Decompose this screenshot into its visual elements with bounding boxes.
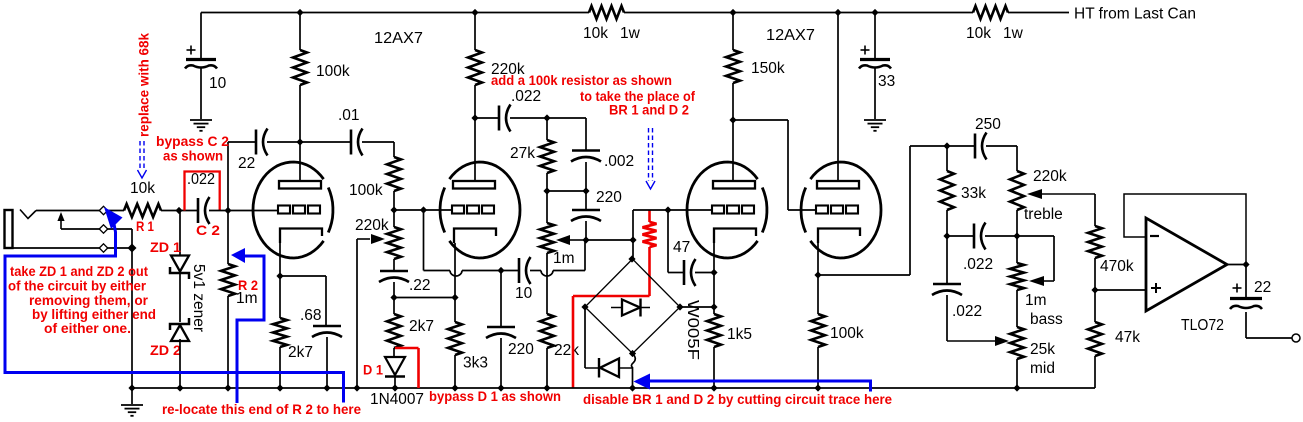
wire output to 22 cap [1245, 265, 1247, 298]
capacitor 47 [683, 260, 686, 285]
node cathode-side [451, 294, 458, 301]
wire 150k to plate [732, 83, 734, 181]
wire drop to 220 cap [500, 271, 502, 327]
svg-text:100k: 100k [349, 182, 383, 199]
red box around C2 [185, 172, 220, 211]
blue arrow at R2 top [231, 248, 245, 263]
svg-text:.022: .022 [963, 256, 993, 273]
wire node to bass wiper feed [1017, 235, 1054, 237]
svg-text:1N4007: 1N4007 [370, 391, 424, 408]
node bridge top [628, 255, 635, 262]
blue wire jack-node path [5, 224, 344, 403]
wire jack ring line [61, 228, 100, 230]
wire rail to V2b plate [837, 13, 839, 182]
resistor 33k [946, 146, 948, 171]
potentiometer 220k treble [1010, 171, 1024, 210]
node V1a cathode junction [276, 272, 283, 279]
svg-text:25k: 25k [1030, 341, 1055, 358]
resistor R2 1m [221, 264, 235, 296]
wire node to 1m pot [546, 191, 548, 223]
mid wiper arrow [995, 336, 1009, 346]
svg-text:250: 250 [975, 116, 1001, 133]
wire 470k to node [1094, 258, 1096, 290]
wire .022 to mid wiper [946, 295, 948, 341]
svg-text:HT from Last Can: HT from Last Can [1074, 6, 1196, 23]
node V2 grid [390, 206, 397, 213]
svg-text:22: 22 [1254, 279, 1271, 296]
wire ground bus [132, 387, 1095, 389]
node rail-33uF [871, 9, 878, 16]
ground (10uF) [190, 119, 212, 121]
svg-text:ZD 1: ZD 1 [150, 239, 181, 255]
triode V1a plate [279, 181, 321, 189]
wire tap to 47 cap [667, 210, 669, 273]
capacitor .002 [572, 149, 600, 152]
svg-text:100k: 100k [830, 325, 864, 342]
node .002 bottom [582, 187, 589, 194]
wire V2b grid line [788, 209, 816, 211]
wire V1a grid [228, 210, 278, 212]
wire R2 to bus [227, 296, 229, 388]
node rail-220k [471, 9, 478, 16]
node bridge right [676, 303, 683, 310]
node wiper-bus [353, 384, 360, 391]
wire rail to 100k [299, 13, 301, 51]
capacitor 10uF electrolytic [187, 49, 196, 51]
blue arrow at bridge lead [634, 374, 651, 390]
wire sleeve to ground bus [107, 247, 132, 249]
svg-text:.002: .002 [604, 153, 634, 170]
node coupling tap [729, 116, 736, 123]
svg-text:10k: 10k [130, 180, 155, 197]
svg-text:22: 22 [238, 155, 255, 172]
capacitor 10 [518, 258, 521, 283]
svg-text:10: 10 [209, 75, 227, 92]
wire .01 to 100k grid stopper [362, 141, 394, 143]
node plate junction V1a [296, 138, 303, 145]
blue arrow at R1 node [104, 207, 123, 229]
wire 100k to bus [817, 347, 819, 388]
wire ZD1 to ZD2 [179, 273, 181, 322]
triode V1a envelope [253, 162, 324, 258]
svg-text:27k: 27k [510, 145, 535, 162]
svg-text:2k7: 2k7 [288, 344, 313, 361]
wire D1 to bus [394, 377, 396, 388]
wire V2b cathode down [817, 243, 819, 314]
wire node to op-amp + [1095, 289, 1146, 291]
wire to 250 cap [947, 145, 975, 147]
wire grid node to R2 [227, 211, 229, 265]
svg-text:3k3: 3k3 [463, 355, 488, 372]
wire 1m pot to 22k [546, 253, 548, 314]
resistor 150k [726, 50, 740, 83]
wire V1b cathode [454, 243, 456, 298]
blue wire disable-trace path [649, 381, 871, 392]
zener ZD2 [171, 325, 189, 341]
wire .22 to 2k7 [393, 282, 395, 314]
svg-text:1k5: 1k5 [727, 326, 752, 343]
wire 2k7 to bus [279, 347, 281, 388]
wire 1k5 to bus [713, 347, 715, 388]
node .22-2k7 junction [390, 294, 397, 301]
svg-text:5v1 zener: 5v1 zener [190, 264, 207, 332]
node wiper line junction [582, 236, 589, 243]
triode V2a cathode [714, 229, 756, 244]
node bridge left [581, 303, 588, 310]
wire cathode to .68 [280, 275, 326, 277]
svg-text:1w: 1w [1003, 25, 1024, 42]
capacitor .01 [350, 130, 353, 155]
node bus-ground [128, 384, 135, 391]
volume pot wiper [357, 238, 370, 240]
svg-text:1m: 1m [1025, 292, 1047, 309]
wire grid node up to 22pF [227, 142, 229, 211]
wire node to 220 cap [585, 191, 587, 209]
wire jack tip line [36, 210, 100, 212]
wire treble to .022 node [1016, 210, 1018, 236]
wire 22 cap to output terminal [1245, 312, 1247, 338]
wire rail to 150k [732, 13, 734, 51]
wire bass to 25k [1016, 290, 1018, 327]
wire bridge right to cathode line [680, 306, 714, 308]
wire 3k3 to bus [454, 355, 456, 388]
ground (33uF) [864, 119, 886, 121]
node 220-bus [497, 384, 504, 391]
triode V1a cathode [280, 229, 322, 244]
wire 220 to bus [500, 338, 502, 388]
wire tap to V2b grid [733, 119, 788, 121]
wire bridge bottom to bus [631, 354, 635, 389]
node bridge-bus [629, 384, 636, 391]
op-amp plus sign [1151, 287, 1161, 289]
blue dashed arrow to bridge [648, 128, 650, 181]
wire junction to cathode line [394, 297, 455, 299]
node 100k-bus [814, 384, 821, 391]
svg-text:220k: 220k [1033, 168, 1067, 185]
wire 2k7 to D1 [393, 348, 395, 357]
svg-text:1w: 1w [620, 25, 641, 42]
wire 250 to treble [986, 145, 1017, 147]
bridge internal diode [611, 307, 650, 309]
capacitor .68 [313, 325, 341, 328]
triode V1b grid [452, 206, 464, 214]
resistor 100k (V2b cathode) [811, 314, 825, 347]
wire HT rail [201, 12, 589, 14]
wire tap to .022 [475, 117, 499, 119]
wire .022 down (tone 2) [946, 236, 948, 283]
wire rail to 220k [474, 13, 476, 51]
wire op-amp output [1227, 264, 1246, 266]
node cathode output [814, 271, 821, 278]
resistor 27k [540, 140, 554, 173]
node 27k top [543, 114, 550, 121]
capacitor 220 (second) [487, 326, 515, 329]
svg-text:.022: .022 [187, 171, 215, 188]
svg-text:10k: 10k [966, 25, 991, 42]
svg-text:220k: 220k [355, 217, 389, 234]
node D1-bus [391, 384, 398, 391]
triode V2a grid [712, 206, 724, 214]
blue wire R2 path [237, 256, 264, 403]
resistor 10k 1w (left) [589, 6, 624, 19]
node 3k3-bus [451, 384, 458, 391]
resistor 100k (red mod) [643, 222, 657, 247]
resistor 2k7 (V1a cathode) [279, 276, 281, 318]
capacitor C2 .022 [197, 198, 200, 223]
capacitor 22uF output [1233, 287, 1242, 289]
node 47 cap tap [664, 206, 671, 213]
node ZD2-bus [176, 384, 183, 391]
svg-text:TLO72: TLO72 [1181, 317, 1224, 334]
node bridge-top line [629, 236, 636, 243]
capacitor 33uF electrolytic [861, 49, 870, 51]
resistor 100k (grid) [387, 157, 401, 191]
wire wiper line to bridge top [586, 239, 633, 241]
resistor 3k3 [448, 322, 462, 355]
wire feedback loop [1124, 194, 1246, 265]
svg-text:10k: 10k [583, 25, 608, 42]
svg-text:1m: 1m [236, 290, 258, 307]
resistor 2k7 (second) [387, 314, 401, 348]
potentiometer 25k mid [1010, 327, 1024, 359]
jack tip contact [20, 210, 36, 219]
diode D2 [585, 367, 632, 369]
node 2k7-bus [276, 384, 283, 391]
wire V2a cathode down [713, 243, 715, 314]
node 220cap drop [497, 267, 504, 274]
wire to 10 cap [501, 270, 519, 272]
wire R1 to C2 [161, 210, 198, 212]
triode V2b grid [816, 206, 828, 214]
wire .002 to node [585, 162, 587, 191]
wire .68 to bus [326, 337, 328, 388]
wire V1a cathode [279, 243, 281, 276]
wire .022 to 27k node [510, 117, 586, 119]
node grid tap [420, 206, 427, 213]
svg-text:re-locate this end of R 2 to h: re-locate this end of R 2 to here [162, 401, 361, 417]
svg-text:.022: .022 [952, 303, 982, 320]
resistor 1k5 [707, 314, 721, 347]
svg-text:22k: 22k [554, 342, 579, 359]
red wire to ground trace [648, 247, 651, 296]
svg-text:33: 33 [878, 73, 895, 90]
node 22k-bus [543, 384, 550, 391]
wire .002 drop [585, 118, 587, 150]
capacitor .022 (coupling) [498, 106, 501, 131]
node op-amp input [1091, 286, 1098, 293]
node .68-bus [323, 384, 330, 391]
wire 25k to bus [1016, 359, 1018, 388]
svg-text:.68: .68 [300, 307, 322, 324]
node output [1242, 261, 1249, 268]
wire rail to C-10uF [200, 13, 202, 59]
svg-text:12AX7: 12AX7 [374, 30, 423, 47]
capacitor .22 [380, 270, 408, 273]
node 25k-bus [1013, 384, 1020, 391]
red wire resistor top stub [648, 210, 651, 222]
1m pot wiper [570, 239, 586, 241]
wire bridge left to D2 [584, 307, 586, 368]
node R1-C2 junction [175, 207, 182, 214]
wire to 27k [546, 118, 548, 140]
potentiometer 1m bass [1016, 236, 1018, 263]
triode V2b cathode [818, 229, 860, 244]
red wire bypass D1 trace [395, 347, 419, 350]
svg-text:220: 220 [596, 189, 622, 206]
resistor 47k [1094, 290, 1096, 322]
op-amp U1 TLO72 [1146, 218, 1227, 311]
wire 33k to .022 node [946, 210, 948, 236]
wire jack sleeve line [13, 247, 101, 249]
svg-text:220: 220 [508, 341, 534, 358]
wire grid line to bridge top [632, 210, 634, 259]
svg-text:10: 10 [515, 285, 533, 302]
wire ZD2 to bus [179, 339, 181, 388]
svg-text:C 2: C 2 [196, 222, 220, 238]
svg-text:of either one.: of either one. [44, 320, 131, 336]
svg-text:as shown: as shown [163, 148, 223, 164]
wire cathode to tone stack [818, 274, 910, 276]
potentiometer 220k volume [387, 227, 401, 259]
wire pot to .22 [393, 259, 395, 271]
op-amp minus sign [1150, 235, 1159, 237]
input jack body [5, 210, 13, 248]
node .022 tap [471, 114, 478, 121]
wire 10 cap over 22k line [530, 270, 541, 272]
svg-text:ZD 2: ZD 2 [150, 342, 181, 358]
triode V1b envelope [449, 162, 520, 258]
ground (main) [131, 388, 133, 404]
node 33k top [943, 142, 950, 149]
wire 100k to V2 grid line [393, 191, 395, 210]
node R2-bus [224, 384, 231, 391]
resistor 470k [1088, 226, 1102, 258]
svg-text:replace with 68k: replace with 68k [136, 33, 152, 137]
zener ZD1 [171, 256, 189, 272]
svg-text:treble: treble [1024, 206, 1063, 223]
wire V2a grid line [633, 209, 712, 211]
wire diamond to R1 [107, 210, 124, 212]
node 1k5-bus [710, 384, 717, 391]
node 47-cathode [710, 269, 717, 276]
node rail-plate V2b [834, 9, 841, 16]
jack switch arrow [60, 219, 62, 229]
svg-text:12AX7: 12AX7 [766, 27, 815, 44]
wire V1b grid line [394, 209, 453, 211]
wire grid-tap line with hops [424, 270, 451, 272]
wire C2 to grid node [209, 210, 228, 212]
triode V2b envelope [810, 162, 881, 258]
wire 27k-.002 link [547, 190, 586, 192]
node bridge-cathode [710, 303, 717, 310]
svg-text:bass: bass [1030, 311, 1063, 328]
wire wiper to bus [356, 239, 358, 388]
wire 220k to plate [474, 85, 476, 181]
output terminal [1292, 334, 1300, 342]
junction diamond at sleeve [128, 244, 137, 253]
node grid junction [224, 207, 231, 214]
svg-text:470k: 470k [1100, 258, 1134, 275]
svg-text:add a 100k resistor as shown: add a 100k resistor as shown [491, 72, 672, 88]
node rail-150k [729, 9, 736, 16]
triode V1b cathode [454, 229, 496, 244]
capacitor .022 (tone 1) [947, 235, 974, 237]
node .022 right [1013, 232, 1020, 239]
svg-text:1m: 1m [553, 250, 575, 267]
node rail-100k [296, 9, 303, 16]
wire 100k to plate [299, 85, 301, 181]
diode D1 [385, 357, 405, 375]
node 27k bottom [543, 187, 550, 194]
node .022 left [943, 232, 950, 239]
wire grid node to volume pot [393, 210, 395, 227]
wire grid tap down [423, 210, 425, 271]
svg-text:.22: .22 [409, 277, 431, 294]
blue dashed arrow to 10k [139, 141, 141, 170]
svg-text:33k: 33k [961, 185, 986, 202]
wire plate node to .01 [300, 141, 351, 143]
bridge BR1 diamond [585, 259, 680, 354]
treble wiper [1042, 193, 1095, 195]
wire rail to C-33uF [874, 13, 876, 59]
resistor 100k (V1a plate) [293, 50, 307, 85]
resistor R1 10k [124, 204, 161, 217]
svg-text:100k: 100k [316, 63, 350, 80]
svg-text:mid: mid [1030, 360, 1055, 377]
potentiometer 1m [540, 223, 554, 253]
wire cathode to 3k3 [454, 298, 456, 323]
svg-text:R 1: R 1 [136, 218, 154, 234]
svg-text:disable BR 1 and D 2 by cuttin: disable BR 1 and D 2 by cutting circuit … [583, 391, 892, 407]
triode V2b plate [817, 181, 859, 189]
svg-text:.022: .022 [511, 88, 541, 105]
svg-text:D 1: D 1 [363, 362, 383, 378]
resistor 220k (V1b plate) [468, 50, 482, 85]
triode V1b plate [453, 181, 495, 189]
wire 220 to wiper line [585, 221, 587, 240]
capacitor 220 (treble peak) [572, 209, 600, 212]
bass wiper arrow [1029, 276, 1044, 286]
wire 27k to lower node [546, 173, 548, 191]
resistor 22k [540, 314, 554, 348]
jack contact diamonds [99, 206, 107, 214]
capacitor .022 (tone 2) [933, 283, 961, 286]
svg-text:bypass D 1 as shown: bypass D 1 as shown [429, 388, 561, 404]
svg-text:W005F: W005F [684, 300, 701, 360]
svg-text:2k7: 2k7 [409, 318, 434, 335]
capacitor 22pF [255, 130, 258, 155]
svg-text:47: 47 [673, 239, 690, 256]
wire 22k to bus [546, 348, 548, 388]
svg-text:.01: .01 [338, 107, 360, 124]
wire ring to sleeve [107, 228, 132, 230]
svg-text:150k: 150k [751, 60, 785, 77]
triode V2a envelope [687, 162, 758, 258]
wire junction to ZD1 [179, 211, 181, 256]
wire 22pF to plate node [267, 141, 300, 143]
resistor 10k 1w (right) [973, 6, 1008, 19]
svg-text:47k: 47k [1115, 329, 1140, 346]
capacitor 250 [974, 134, 977, 159]
triode V2a plate [713, 181, 755, 189]
node bridge bottom [629, 350, 636, 357]
wire 47k to bus [1094, 356, 1096, 388]
svg-text:BR 1 and D 2: BR 1 and D 2 [609, 102, 689, 118]
triode V1a grid [278, 206, 290, 214]
wire treble wiper to 470k [1094, 194, 1096, 226]
wire 47 to cathode line [695, 272, 714, 274]
